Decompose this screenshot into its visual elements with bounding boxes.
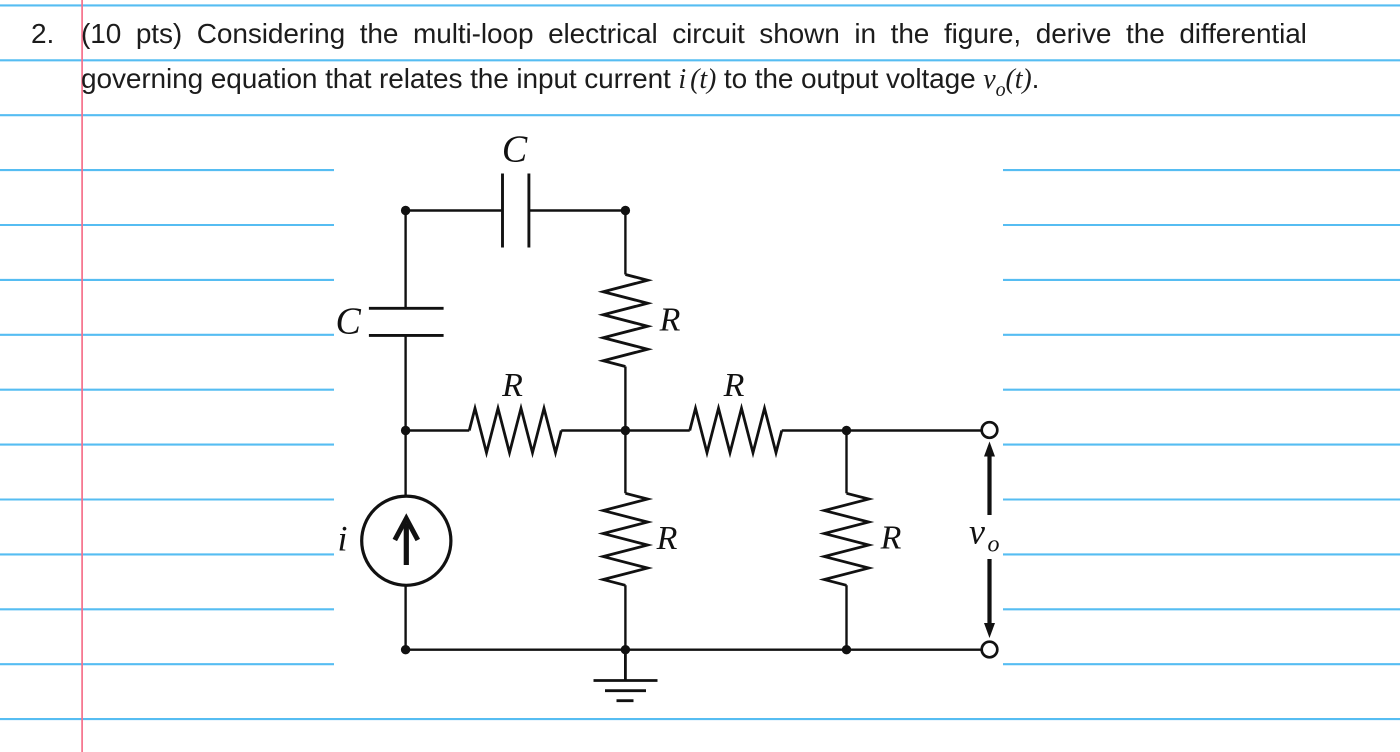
wire: top-left vertical (node A to capacitor C1 top plate) — [404, 211, 406, 309]
wire: left vertical (C1 bottom plate to current source) — [404, 335, 406, 496]
wire: middle rail R2 to node C — [561, 429, 625, 431]
wire: top rail left of capacitor C2 — [406, 209, 503, 211]
svg-text:o: o — [988, 532, 1000, 558]
ground — [594, 650, 658, 701]
node B: middle-left junction — [401, 426, 410, 435]
node: top-left junction — [401, 206, 410, 215]
wire: center vertical between R1 and node C — [624, 367, 626, 494]
problem statement line 1 (justified) — [81, 11, 1307, 56]
output terminal - (bottom) — [982, 642, 998, 658]
svg-text:R: R — [501, 367, 523, 404]
resistor R4 (lower center vertical) — [603, 493, 647, 585]
junction node dots — [401, 206, 851, 655]
wire: center vertical above resistor R1 — [624, 211, 626, 275]
node C: middle-center junction — [621, 426, 630, 435]
node: bottom-left junction — [401, 645, 410, 654]
wire: right branch vertical above R5 — [845, 431, 847, 494]
vo measurement arrow — [984, 442, 995, 639]
current source I1 circle — [362, 496, 451, 585]
output terminal + (top) — [982, 422, 998, 438]
svg-text:R: R — [880, 520, 902, 557]
wire: middle rail node B to resistor R2 — [406, 429, 470, 431]
node D: middle-right junction — [842, 426, 851, 435]
svg-text:R: R — [656, 520, 678, 557]
node: top-right junction — [621, 206, 630, 215]
resistor R1 (upper center vertical) — [603, 275, 647, 367]
white figure panel — [334, 120, 1003, 712]
resistor R2 (middle-left horizontal) — [469, 408, 561, 452]
wire: center vertical below R4 to bottom rail — [624, 585, 626, 649]
svg-text:i: i — [337, 519, 347, 559]
resistor R3 (middle-right horizontal) — [690, 408, 782, 452]
resistor R5 (lower right vertical) — [824, 493, 868, 585]
svg-text:v: v — [969, 511, 985, 551]
wire: left vertical (current source to bottom rail) — [404, 585, 406, 650]
wire: middle rail node C to resistor R3 — [625, 429, 689, 431]
capacitor C1 (left, vertical) — [369, 308, 444, 335]
current source I1 arrow — [395, 519, 418, 566]
wire: node D to output terminal + — [847, 429, 982, 431]
wire: bottom rail — [406, 649, 982, 651]
svg-text:R: R — [659, 302, 681, 339]
node: bottom-center junction (ground) — [621, 645, 630, 654]
wire: middle rail R3 to node D — [782, 429, 847, 431]
wire: right branch vertical below R5 — [845, 585, 847, 649]
problem number — [31, 11, 54, 56]
svg-text:R: R — [723, 367, 745, 404]
problem statement line 2 — [81, 56, 1039, 105]
wire: top rail right of capacitor C2 — [529, 209, 626, 211]
node: bottom-right junction — [842, 645, 851, 654]
svg-text:C: C — [502, 129, 528, 171]
capacitor C2 (top, horizontal) — [503, 174, 529, 248]
svg-text:C: C — [336, 301, 362, 343]
